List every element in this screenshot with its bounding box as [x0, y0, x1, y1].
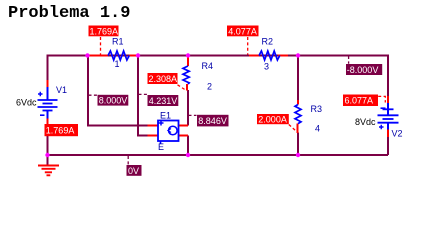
voltage label 4.231V — [148, 95, 179, 106]
wire V2 branch lower — [387, 137, 389, 156]
leader dashes — [101, 37, 386, 131]
svg-text:Problema 1.9: Problema 1.9 — [8, 4, 130, 23]
voltage label 0V — [127, 165, 142, 176]
dependent source E1 pins — [148, 126, 189, 136]
node junction dots — [45, 53, 300, 157]
svg-text:0V: 0V — [128, 166, 139, 176]
svg-text:E1: E1 — [160, 111, 171, 121]
wire R3 branch upper — [297, 56, 299, 101]
svg-text:8Vdc: 8Vdc — [355, 117, 376, 127]
source V1 pins — [47, 80, 49, 125]
svg-text:E: E — [158, 142, 164, 152]
current label 2.308A (R4) — [148, 73, 178, 84]
wire R3 branch lower — [297, 133, 299, 156]
wire V1 branch upper — [47, 55, 49, 82]
current label 6.077A (V2) — [343, 95, 378, 107]
resistor R4 pins — [187, 56, 188, 91]
svg-text:8.000V: 8.000V — [99, 96, 128, 106]
wire V2 branch upper — [387, 55, 389, 97]
wire R4 bottom to E1 output top — [187, 90, 189, 126]
svg-text:V2: V2 — [392, 129, 403, 139]
resistor R1 pins — [89, 55, 138, 57]
resistor R2 — [259, 51, 280, 60]
wire E1 output bottom to bottom bus — [187, 136, 189, 156]
voltage label 8.000V — [98, 95, 129, 106]
svg-text:R3: R3 — [311, 104, 323, 114]
wire node-left vertical to E1 plus input — [88, 56, 148, 126]
current label 1.769A (V1) — [45, 124, 79, 136]
svg-text:1: 1 — [115, 59, 120, 69]
source V1 — [38, 87, 58, 119]
resistor R4 — [183, 66, 189, 84]
wire node-mid vertical to E1 minus input — [138, 56, 148, 136]
resistor R1 — [108, 51, 129, 60]
wire bottom bus — [48, 154, 389, 156]
svg-text:R2: R2 — [262, 37, 274, 47]
resistor R3 — [295, 105, 301, 124]
svg-text:2.000A: 2.000A — [258, 115, 287, 125]
svg-text:2.308A: 2.308A — [149, 74, 178, 84]
current label 2.000A (R3) — [257, 114, 289, 125]
resistor R2 pins — [249, 55, 288, 57]
dependent source E1 — [158, 121, 179, 144]
wire V1 branch lower — [47, 136, 49, 155]
voltage label 8.846V — [197, 115, 229, 127]
source V2 — [378, 103, 399, 130]
svg-text:R4: R4 — [202, 61, 214, 71]
svg-text:4: 4 — [315, 124, 320, 134]
svg-text:1.769A: 1.769A — [90, 26, 119, 36]
svg-text:-8.000V: -8.000V — [347, 65, 379, 75]
source V2 pins — [387, 96, 389, 137]
resistor R3 pins — [297, 100, 300, 133]
current label 1.769A (R1) — [89, 26, 119, 37]
svg-text:V1: V1 — [56, 85, 67, 95]
current label 4.077A (R2) — [227, 26, 259, 37]
svg-text:4.077A: 4.077A — [228, 26, 257, 36]
svg-text:4.231V: 4.231V — [149, 96, 178, 106]
wire top bus — [48, 55, 389, 57]
svg-text:6.077A: 6.077A — [345, 96, 374, 106]
svg-text:6Vdc: 6Vdc — [16, 98, 37, 108]
svg-text:8.846V: 8.846V — [198, 116, 227, 126]
svg-text:2: 2 — [207, 82, 212, 92]
ground — [47, 155, 49, 165]
svg-text:3: 3 — [264, 62, 269, 72]
svg-text:R1: R1 — [112, 37, 124, 47]
svg-text:1.769A: 1.769A — [46, 126, 75, 136]
voltage label -8.000V — [346, 64, 382, 75]
